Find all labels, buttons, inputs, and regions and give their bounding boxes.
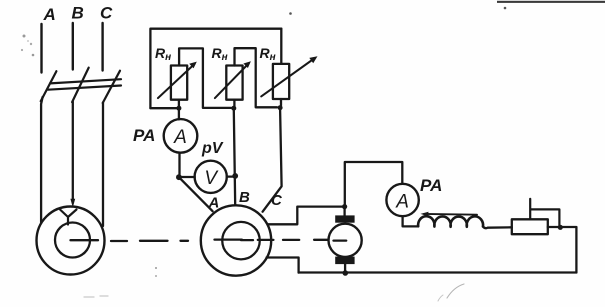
shaft dash <box>258 239 274 241</box>
svg-text:PA: PA <box>133 126 155 145</box>
wire phase A upper <box>40 24 42 73</box>
exciter brush bottom <box>335 257 354 265</box>
wire brush bottom stub <box>344 264 346 271</box>
shaft dash <box>140 240 168 242</box>
junction dot exciter bottom <box>343 270 349 276</box>
wire R2 bottom stub <box>233 100 235 106</box>
field rheostat R4 tap <box>530 199 559 227</box>
wire coil to rheostat <box>483 227 512 229</box>
wire rheostat out <box>548 226 577 228</box>
motor M1 outer circle <box>37 207 105 275</box>
motor M1 star symbol Y <box>60 210 77 225</box>
svg-text:A: A <box>43 5 56 24</box>
rheostat R3 body <box>273 64 289 99</box>
wire R1 top to node B <box>179 48 231 108</box>
exciter armature GE circle <box>329 224 362 257</box>
rheostat R2 body <box>226 66 242 100</box>
field rheostat R4 body <box>512 219 548 234</box>
shaft dash <box>215 238 242 240</box>
switch QS gang bar lower <box>48 86 121 90</box>
svg-text:C: C <box>271 192 283 209</box>
arrow into star point <box>70 199 75 208</box>
svg-text:Rн: Rн <box>155 45 171 63</box>
svg-text:B: B <box>72 4 84 23</box>
junction dot tap <box>558 225 563 230</box>
junction dot phase B <box>232 173 238 179</box>
shaft dash <box>111 240 127 242</box>
svg-text:A: A <box>395 192 409 213</box>
wire R3 bottom stub <box>280 99 282 106</box>
rheostat R3 arrow <box>261 59 313 96</box>
junction dot exciter top <box>342 204 347 209</box>
wire diagonal to terminal A <box>179 177 213 211</box>
switch QS blade B <box>72 68 89 103</box>
svg-text:C: C <box>100 4 113 23</box>
wire rail to node A <box>150 107 176 109</box>
wire phase B upper <box>72 23 74 70</box>
node C junction dot <box>278 105 283 110</box>
svg-text:A: A <box>173 127 187 148</box>
wire phase A lower <box>41 97 43 223</box>
svg-text:V: V <box>204 168 219 189</box>
rheostat R2 arrow <box>215 64 249 99</box>
svg-text:Rн: Rн <box>260 45 276 63</box>
wire phase C upper <box>101 23 103 71</box>
inductor field winding <box>418 216 483 227</box>
ammeter PA1 <box>164 119 198 153</box>
node A junction dot <box>176 106 181 111</box>
svg-text:A: A <box>208 195 220 212</box>
svg-text:pV: pV <box>201 140 224 157</box>
rheostat R1 arrow <box>158 64 195 98</box>
node B junction dot <box>231 106 236 111</box>
wire bottom rail <box>299 271 577 273</box>
junction dot phase A <box>176 174 182 180</box>
svg-text:PA: PA <box>420 176 442 195</box>
wire top rail <box>150 29 281 108</box>
voltmeter PV <box>195 161 227 193</box>
wire phase B lower <box>72 102 74 203</box>
svg-text:B: B <box>239 189 250 206</box>
svg-text:Rн: Rн <box>212 45 228 63</box>
wire to voltmeter left <box>181 176 195 178</box>
shaft dash <box>241 239 253 241</box>
wire phase C drop <box>263 110 282 212</box>
shaft dash <box>181 240 189 242</box>
wire R2 top to node C <box>235 48 278 107</box>
wire ammeter to node <box>178 153 180 175</box>
generator G1 outer circle <box>201 205 271 275</box>
wire phase C lower <box>102 103 104 227</box>
generator G1 inner circle <box>222 222 260 260</box>
scan edge artifact <box>497 1 605 3</box>
wire phase B drop <box>234 110 235 205</box>
switch QS gang bar upper <box>50 79 121 83</box>
motor M1 inner circle <box>55 223 90 258</box>
shaft dash <box>283 239 299 241</box>
wire ammeter to coil <box>403 216 418 226</box>
wire R1 bottom stub <box>178 100 180 106</box>
wire brush top stub <box>343 207 345 216</box>
wire excitation loop top <box>345 162 403 206</box>
exciter brush top <box>335 215 354 222</box>
wire right return <box>575 227 577 272</box>
wire slip ring lower <box>267 258 299 273</box>
shaft dash <box>334 239 347 241</box>
wire node A to ammeter <box>178 110 180 119</box>
inductor arrow line <box>424 213 477 216</box>
wire slip ring upper <box>268 207 345 225</box>
shaft dash <box>314 239 328 241</box>
ammeter PA2 <box>386 184 418 216</box>
rheostat R1 body <box>171 66 187 100</box>
shaft line segment <box>71 239 99 241</box>
wire voltmeter right <box>227 176 233 178</box>
switch QS blade C <box>103 71 120 103</box>
wire rail right drop <box>280 29 282 64</box>
switch QS blade A <box>41 71 57 101</box>
